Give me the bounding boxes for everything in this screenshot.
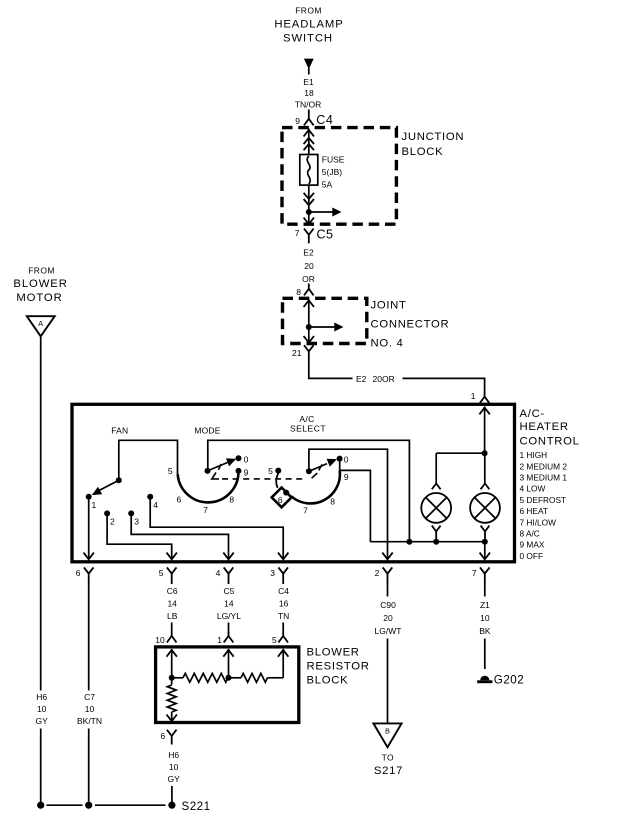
svg-text:9: 9 bbox=[344, 472, 349, 482]
svg-text:7: 7 bbox=[295, 228, 300, 238]
svg-text:BLOCK: BLOCK bbox=[402, 146, 444, 158]
connector C4 pin 9 bbox=[295, 110, 333, 128]
svg-text:C5: C5 bbox=[317, 228, 334, 242]
svg-text:7: 7 bbox=[203, 505, 208, 515]
resistor block pin 6 bbox=[160, 730, 176, 745]
A/C select 5 to 6 curve bbox=[276, 473, 278, 488]
A/C select contact 5 bbox=[268, 466, 281, 476]
svg-text:BK/TN: BK/TN bbox=[77, 716, 102, 726]
svg-text:LG/WT: LG/WT bbox=[375, 626, 402, 636]
svg-text:HEATER: HEATER bbox=[520, 421, 569, 433]
MODE wiper feed wire to lamp bus bbox=[208, 440, 410, 541]
A/C select wiper arm bbox=[309, 459, 337, 472]
svg-text:6: 6 bbox=[160, 731, 165, 741]
svg-text:FAN: FAN bbox=[111, 425, 128, 435]
junction dot in junction block bbox=[306, 209, 312, 215]
svg-text:E2: E2 bbox=[303, 248, 314, 258]
svg-text:MODE: MODE bbox=[194, 425, 220, 435]
svg-text:1: 1 bbox=[471, 391, 476, 401]
svg-text:10: 10 bbox=[37, 704, 47, 714]
svg-text:4: 4 bbox=[153, 500, 158, 510]
svg-text:C7: C7 bbox=[84, 692, 95, 702]
svg-text:E2: E2 bbox=[356, 374, 367, 384]
wire to C5 with exit arrow bbox=[304, 212, 314, 224]
off-page connector B to S217 bbox=[373, 723, 401, 747]
resistor pin 5 entry arrow bbox=[278, 649, 288, 678]
blower resistor block box bbox=[156, 647, 299, 723]
svg-text:1: 1 bbox=[217, 635, 222, 645]
joint connector no. 4 dashed box bbox=[283, 298, 367, 343]
FAN switch wiper arm bbox=[92, 480, 119, 495]
off-page connector arrow from headlamp switch bbox=[304, 59, 314, 75]
wire FAN contact 3 to pin 4 bbox=[131, 516, 234, 560]
svg-text:BLOCK: BLOCK bbox=[307, 674, 349, 686]
control position legend bbox=[520, 450, 568, 561]
joint connector pin 8 bbox=[296, 284, 313, 298]
svg-text:0: 0 bbox=[244, 454, 249, 464]
wire to ground bbox=[484, 639, 486, 670]
svg-text:HEADLAMP: HEADLAMP bbox=[274, 18, 343, 30]
current direction double chevron up bbox=[304, 138, 314, 150]
svg-text:6: 6 bbox=[76, 568, 81, 578]
resistor pin 10 entry arrow bbox=[167, 649, 177, 678]
svg-text:3: 3 bbox=[134, 517, 139, 527]
wire to connector B bbox=[387, 639, 389, 723]
svg-text:5 DEFROST: 5 DEFROST bbox=[520, 495, 567, 505]
svg-text:C90: C90 bbox=[380, 600, 396, 610]
svg-text:3 MEDIUM 1: 3 MEDIUM 1 bbox=[520, 473, 568, 483]
svg-text:5: 5 bbox=[168, 466, 173, 476]
svg-text:18: 18 bbox=[304, 88, 314, 98]
svg-text:8: 8 bbox=[229, 494, 234, 504]
svg-text:4: 4 bbox=[216, 568, 221, 578]
svg-text:C6: C6 bbox=[167, 586, 178, 596]
resistor element R1 bbox=[172, 673, 228, 682]
svg-text:16: 16 bbox=[279, 599, 289, 609]
MODE position labels 5 6 7 8 bbox=[168, 466, 235, 515]
blower resistor block label bbox=[307, 646, 370, 686]
svg-text:20: 20 bbox=[383, 613, 393, 623]
svg-text:C4: C4 bbox=[278, 586, 289, 596]
junction block dashed box bbox=[282, 128, 396, 225]
junction node pin1 to lamps bbox=[436, 450, 487, 456]
svg-text:FROM: FROM bbox=[28, 265, 55, 275]
joint connector no. 4 label bbox=[371, 300, 450, 350]
wire segment from pin 21 down and right bbox=[309, 360, 353, 378]
current direction double chevron down bbox=[304, 193, 314, 205]
wire label E2 20OR bbox=[356, 374, 395, 384]
svg-text:MOTOR: MOTOR bbox=[16, 292, 62, 304]
svg-text:S221: S221 bbox=[182, 800, 211, 813]
wire label C6 14 LB bbox=[167, 582, 178, 622]
control pin 4 bbox=[216, 567, 234, 582]
wire pin5 to resistor pin 10 bbox=[155, 623, 176, 646]
A/C select wiper pivot bbox=[306, 468, 312, 474]
wire FAN contact 1 to pin 6 bbox=[84, 499, 94, 559]
wire FAN contact 2 to pin 5 bbox=[107, 516, 177, 560]
MODE switch label bbox=[194, 425, 220, 435]
svg-text:10: 10 bbox=[480, 613, 490, 623]
pin 1 entry arrow and wire to lamp node bbox=[479, 407, 489, 454]
svg-text:C5: C5 bbox=[223, 586, 234, 596]
FAN contact 1 bbox=[86, 494, 97, 510]
junction block label bbox=[402, 131, 465, 158]
svg-text:10: 10 bbox=[169, 762, 179, 772]
junction dot in joint connector bbox=[306, 324, 312, 330]
svg-text:5(JB): 5(JB) bbox=[322, 167, 342, 177]
off-page connector A from blower motor bbox=[27, 316, 55, 336]
svg-text:SWITCH: SWITCH bbox=[283, 33, 333, 45]
svg-text:5: 5 bbox=[159, 568, 164, 578]
FAN switch wiper pivot bbox=[116, 477, 122, 483]
wire A/C select contact 9 to lamp bus bbox=[340, 460, 371, 542]
FAN contact 4 bbox=[147, 494, 158, 510]
svg-text:5: 5 bbox=[268, 466, 273, 476]
wire segment E2 20OR to control pin 1 bbox=[403, 378, 485, 392]
fuse 5(JB) 5A bbox=[300, 155, 318, 186]
svg-text:1: 1 bbox=[92, 500, 97, 510]
svg-text:0: 0 bbox=[344, 454, 349, 464]
resistor element R2 bbox=[229, 673, 284, 682]
control pin 7 bbox=[472, 567, 490, 582]
wire lamp bus to pin 7 bbox=[480, 542, 490, 560]
svg-text:A/C-: A/C- bbox=[520, 408, 545, 420]
A/C select position labels 7 8 9 bbox=[303, 472, 349, 516]
wire fuse to junction dot bbox=[308, 185, 310, 212]
svg-text:G202: G202 bbox=[494, 674, 524, 687]
wire exit arrow of joint connector bbox=[304, 327, 314, 343]
MODE wiper pivot bbox=[205, 468, 211, 474]
svg-text:Z1: Z1 bbox=[480, 600, 490, 610]
resistor node dot pin1 bbox=[226, 675, 232, 681]
wire label C4 16 TN bbox=[278, 582, 289, 622]
A/C select wiper feed wire to pin 2 bbox=[309, 449, 393, 559]
svg-text:E1: E1 bbox=[303, 77, 314, 87]
svg-text:5A: 5A bbox=[322, 180, 333, 190]
svg-text:7: 7 bbox=[303, 506, 308, 516]
svg-text:5: 5 bbox=[272, 635, 277, 645]
wire FAN contact 4 to pin 3 bbox=[150, 499, 288, 559]
resistor pin 1 entry arrow bbox=[223, 649, 233, 678]
wire pin 6 to splice S221 bbox=[88, 729, 90, 806]
wire pin3 to resistor pin 5 bbox=[272, 623, 288, 646]
svg-text:7: 7 bbox=[472, 568, 477, 578]
joint connector pin 21 bbox=[292, 345, 314, 360]
A/C-heater control box bbox=[72, 404, 515, 562]
wire label C90 20 LG/WT bbox=[375, 582, 402, 637]
ground G202 bbox=[477, 674, 524, 687]
svg-text:A/C: A/C bbox=[299, 414, 314, 424]
node FROM HEADLAMP SWITCH label bbox=[274, 6, 343, 45]
svg-text:4 LOW: 4 LOW bbox=[520, 484, 546, 494]
illumination lamp 1 bbox=[421, 453, 451, 542]
wire resistor to splice S221 bbox=[171, 786, 173, 805]
svg-text:10: 10 bbox=[155, 635, 165, 645]
svg-text:GY: GY bbox=[36, 716, 49, 726]
svg-text:3: 3 bbox=[270, 568, 275, 578]
svg-text:CONTROL: CONTROL bbox=[520, 436, 580, 448]
MODE switch arc bbox=[178, 471, 239, 502]
MODE wiper arm bbox=[208, 458, 237, 471]
fuse value label FUSE 5(JB) 5A bbox=[322, 155, 345, 190]
svg-text:JOINT: JOINT bbox=[371, 300, 407, 312]
svg-text:FROM: FROM bbox=[295, 6, 322, 16]
wire label C7 10 BK/TN bbox=[77, 692, 102, 726]
svg-text:14: 14 bbox=[224, 599, 234, 609]
mechanical linkage dashed line bbox=[212, 464, 322, 479]
wire label E2 20 OR bbox=[302, 248, 315, 284]
resistor element R3 vertical bbox=[167, 678, 177, 721]
wire label H6 10 GY resistor output bbox=[168, 750, 181, 784]
splice S221 bbox=[37, 800, 210, 813]
control box pin 1 connector bbox=[471, 391, 490, 403]
svg-text:BK: BK bbox=[479, 626, 491, 636]
svg-text:JUNCTION: JUNCTION bbox=[402, 131, 465, 143]
wire label C5 14 LG/YL bbox=[217, 582, 241, 622]
node FROM BLOWER MOTOR label bbox=[13, 265, 67, 304]
control pin 6 bbox=[76, 567, 94, 582]
svg-text:GY: GY bbox=[168, 774, 181, 784]
svg-text:OR: OR bbox=[302, 274, 315, 284]
svg-text:BLOWER: BLOWER bbox=[307, 646, 360, 658]
svg-text:0 OFF: 0 OFF bbox=[520, 551, 544, 561]
control pin 3 bbox=[270, 567, 288, 582]
svg-text:FUSE: FUSE bbox=[322, 155, 345, 165]
svg-text:H6: H6 bbox=[168, 750, 179, 760]
svg-text:7 HI/LOW: 7 HI/LOW bbox=[520, 517, 557, 527]
svg-text:A: A bbox=[38, 319, 43, 328]
svg-text:8 A/C: 8 A/C bbox=[520, 528, 540, 538]
svg-text:20OR: 20OR bbox=[373, 374, 395, 384]
svg-text:B: B bbox=[385, 726, 390, 735]
FAN contact 3 bbox=[128, 510, 139, 526]
svg-text:14: 14 bbox=[167, 599, 177, 609]
svg-text:6: 6 bbox=[177, 494, 182, 504]
svg-text:TO: TO bbox=[382, 752, 394, 762]
svg-text:BLOWER: BLOWER bbox=[13, 278, 67, 290]
wire to splice S221 left bbox=[40, 729, 42, 806]
node TO S217 label bbox=[374, 752, 403, 776]
FAN contact 2 bbox=[104, 510, 115, 526]
lamp bus node bbox=[370, 539, 487, 545]
svg-text:2: 2 bbox=[375, 568, 380, 578]
svg-text:20: 20 bbox=[304, 261, 314, 271]
svg-text:9 MAX: 9 MAX bbox=[520, 540, 545, 550]
svg-text:H6: H6 bbox=[36, 692, 47, 702]
svg-text:6 HEAT: 6 HEAT bbox=[520, 506, 548, 516]
control pin 5 bbox=[159, 567, 177, 582]
svg-text:10: 10 bbox=[85, 704, 95, 714]
branch arrow to other circuits bbox=[309, 208, 342, 217]
svg-text:LB: LB bbox=[167, 611, 178, 621]
svg-text:8: 8 bbox=[330, 497, 335, 507]
MODE contact 9 bbox=[236, 468, 249, 478]
svg-text:21: 21 bbox=[292, 348, 302, 358]
branch arrow in joint connector bbox=[309, 323, 344, 332]
wire label Z1 10 BK bbox=[479, 582, 491, 637]
control pin 2 bbox=[375, 567, 393, 582]
FAN switch label bbox=[111, 425, 128, 435]
svg-text:1 HIGH: 1 HIGH bbox=[520, 450, 548, 460]
A/C select switch arc bbox=[291, 471, 340, 504]
svg-text:TN: TN bbox=[278, 611, 289, 621]
wire control pin 6 down bbox=[88, 582, 90, 691]
svg-text:6: 6 bbox=[278, 495, 283, 505]
A/C select contact 0 bbox=[337, 454, 349, 464]
illumination lamp 2 bbox=[470, 453, 500, 542]
resistor node dot pin10 bbox=[169, 675, 175, 681]
MODE contact 0 bbox=[236, 454, 249, 464]
svg-text:9: 9 bbox=[244, 468, 249, 478]
svg-text:C4: C4 bbox=[316, 113, 333, 127]
svg-text:LG/YL: LG/YL bbox=[217, 611, 241, 621]
svg-text:2: 2 bbox=[110, 517, 115, 527]
svg-text:8: 8 bbox=[296, 287, 301, 297]
connector C5 pin 7 bbox=[295, 228, 334, 244]
wire through joint connector with entry arrow bbox=[304, 299, 314, 327]
svg-text:SELECT: SELECT bbox=[290, 424, 326, 434]
wire pin4 to resistor pin 1 bbox=[217, 623, 233, 646]
svg-text:CONNECTOR: CONNECTOR bbox=[371, 319, 450, 331]
svg-text:TN/OR: TN/OR bbox=[295, 100, 321, 110]
svg-text:NO. 4: NO. 4 bbox=[371, 338, 404, 350]
wire label H6 10 GY left bbox=[36, 692, 49, 726]
wire into junction block with entry arrow bbox=[304, 129, 314, 155]
svg-text:RESISTOR: RESISTOR bbox=[307, 660, 370, 672]
svg-text:9: 9 bbox=[295, 116, 300, 126]
A/C-heater control label bbox=[520, 408, 580, 448]
wire label E1 18 TN/OR bbox=[295, 77, 321, 110]
svg-text:2 MEDIUM 2: 2 MEDIUM 2 bbox=[520, 461, 568, 471]
A/C select contact 6 diamond bbox=[272, 488, 292, 508]
A/C SELECT switch label bbox=[290, 414, 326, 434]
FAN switch feed wire bbox=[119, 440, 178, 480]
wire connector A down bbox=[40, 336, 42, 690]
svg-text:S217: S217 bbox=[374, 765, 403, 777]
